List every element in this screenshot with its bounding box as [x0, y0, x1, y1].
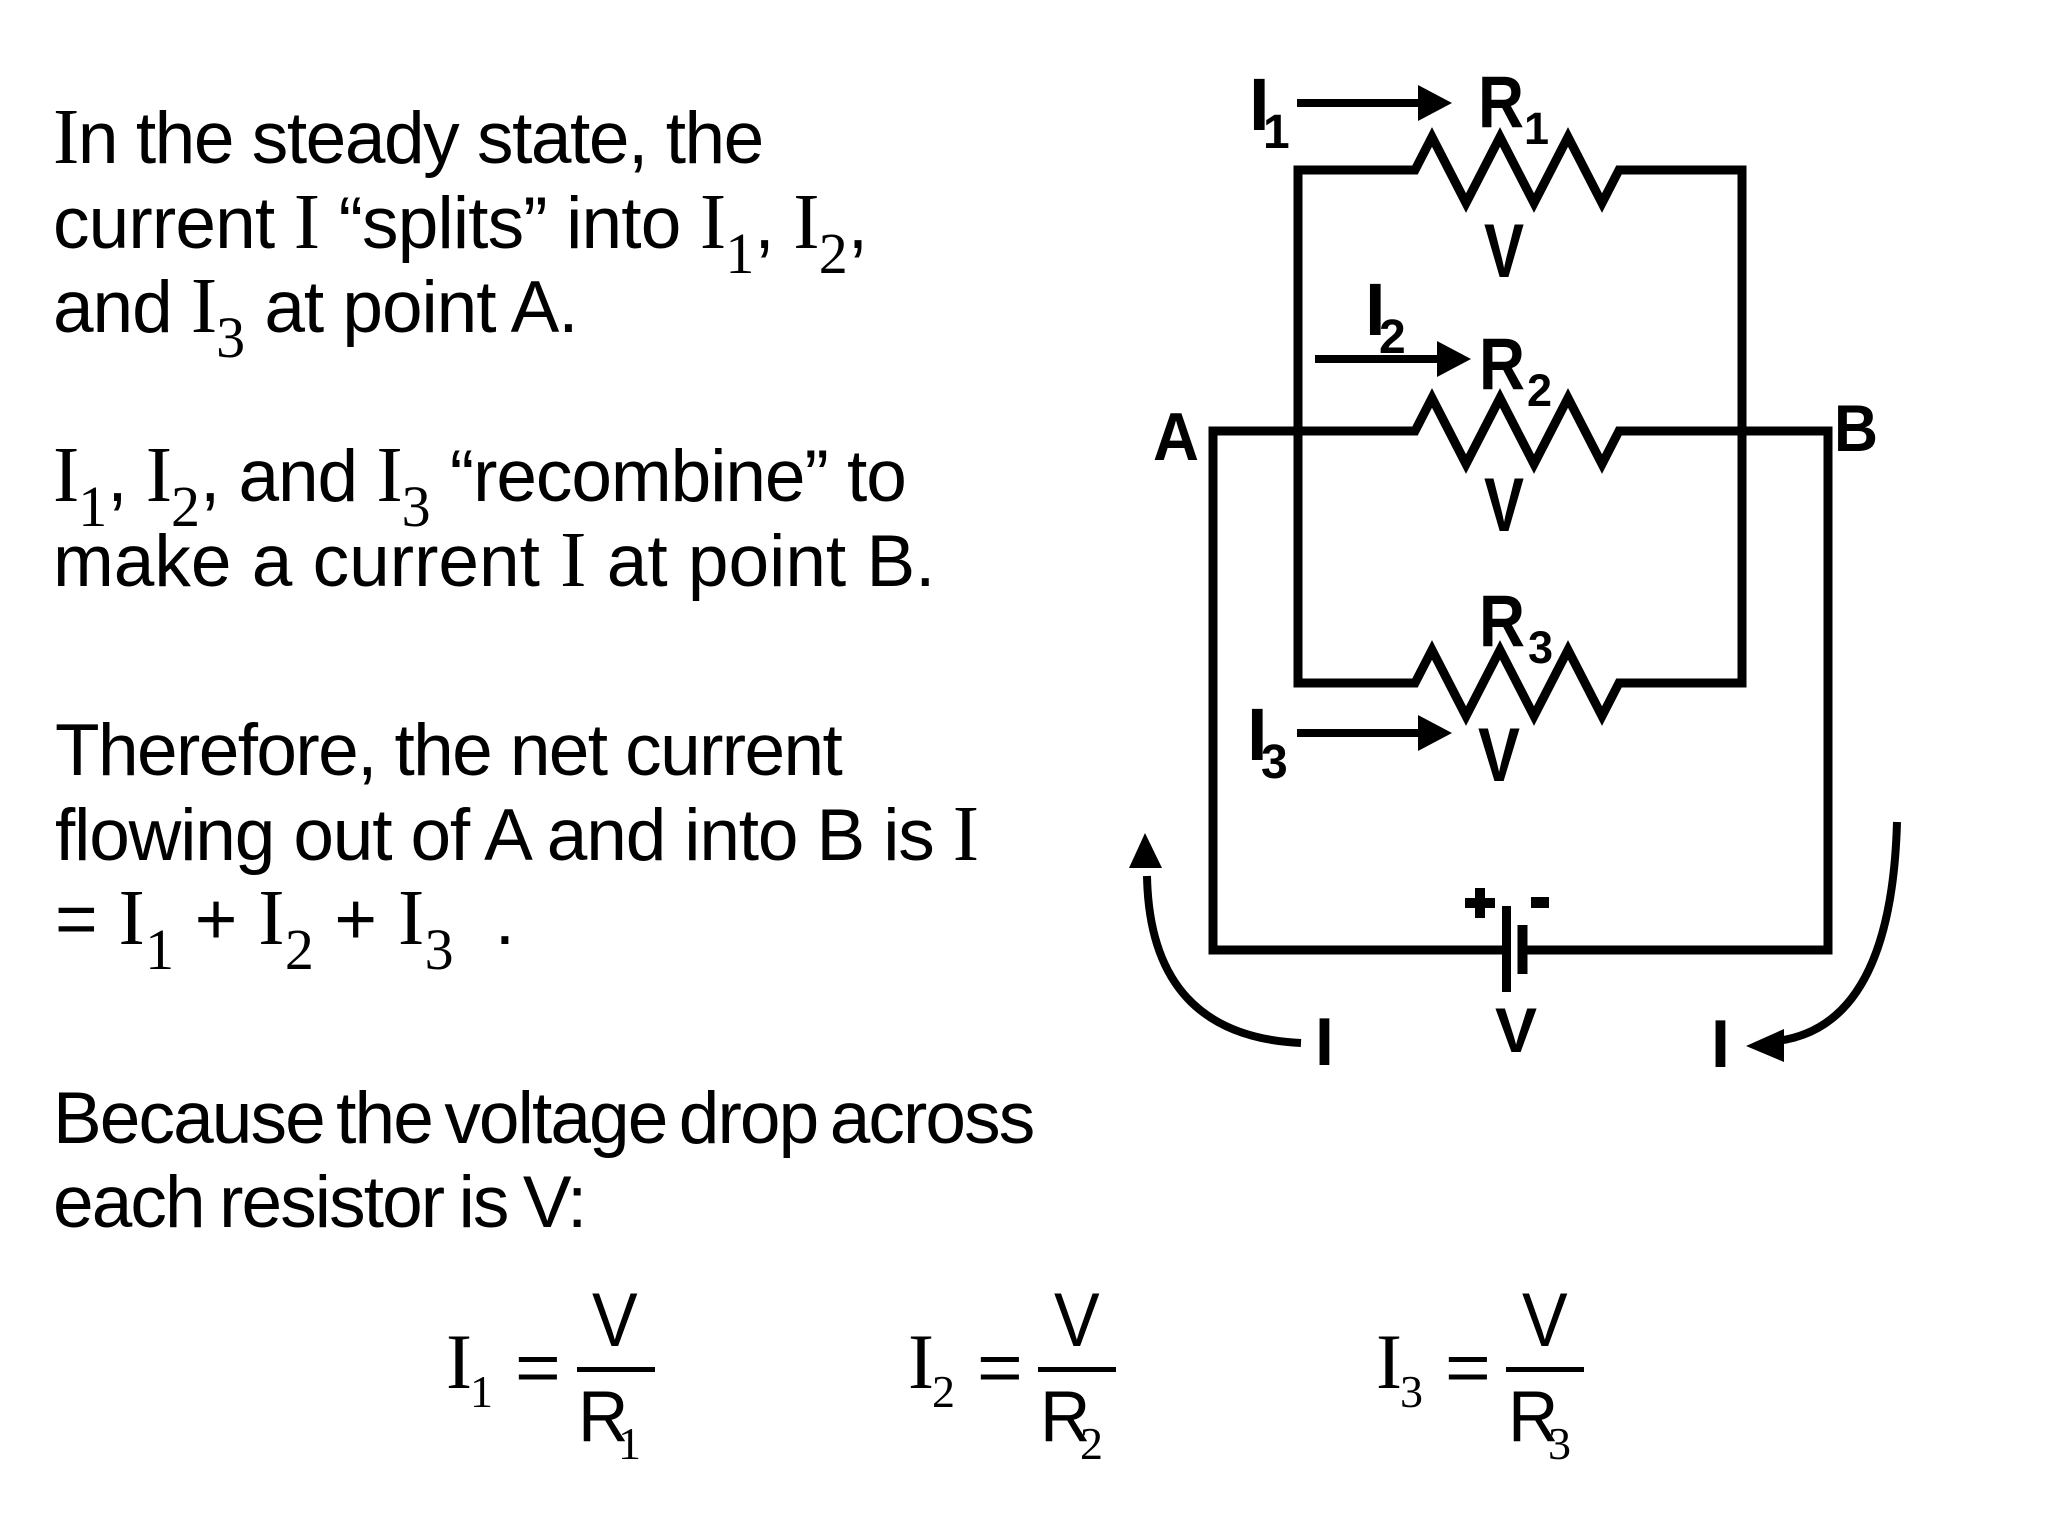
- formula I3 = V/R3: [0, 0, 2048, 1]
- paragraph 4: [53, 1077, 1033, 1244]
- paragraph 2: [53, 434, 935, 603]
- svg-text:I: I: [1711, 1006, 1730, 1082]
- battery plus sign: [1465, 888, 1495, 918]
- svg-text:3: 3: [1261, 736, 1288, 789]
- svg-text:1: 1: [1524, 103, 1549, 154]
- resistor R3: [1298, 650, 1742, 716]
- svg-text:B: B: [1834, 391, 1878, 465]
- svg-text:R: R: [1479, 581, 1525, 662]
- arrow I3: [1297, 729, 1419, 737]
- wire right inner vertical: [1738, 166, 1747, 688]
- resistor R1: [1298, 137, 1742, 203]
- paragraph 1: [53, 96, 867, 350]
- svg-text:3: 3: [1528, 622, 1553, 673]
- svg-text:A: A: [1153, 399, 1199, 475]
- svg-text:V: V: [1495, 996, 1537, 1066]
- svg-text:R: R: [1478, 62, 1524, 143]
- wire bottom left: [1209, 946, 1503, 955]
- resistor R2: [1213, 398, 1828, 464]
- svg-text:I: I: [1315, 1004, 1334, 1080]
- svg-text:V: V: [1484, 209, 1524, 294]
- svg-text:V: V: [1478, 713, 1520, 798]
- svg-text:2: 2: [1527, 365, 1552, 416]
- arrow I1: [1297, 99, 1419, 107]
- arrow I2: [1315, 355, 1438, 363]
- battery long plate (+): [1502, 906, 1511, 992]
- wire left inner vertical: [1294, 166, 1303, 688]
- wire right outer vertical: [1824, 427, 1833, 955]
- wire bottom right: [1527, 946, 1833, 955]
- curved arrow current I right: [1764, 822, 1897, 1042]
- svg-text:V: V: [1484, 463, 1524, 548]
- svg-text:R: R: [1479, 324, 1525, 405]
- battery short plate (-): [1518, 925, 1528, 974]
- battery minus sign: [1531, 897, 1549, 908]
- wire left outer vertical: [1209, 427, 1218, 955]
- paragraph 3: [55, 709, 978, 962]
- curved arrow current I left: [1147, 876, 1301, 1043]
- formula I2 = V/R2: [0, 0, 2048, 1]
- svg-text:1: 1: [1263, 106, 1290, 159]
- formula I1 = V/R1: [0, 0, 2048, 1]
